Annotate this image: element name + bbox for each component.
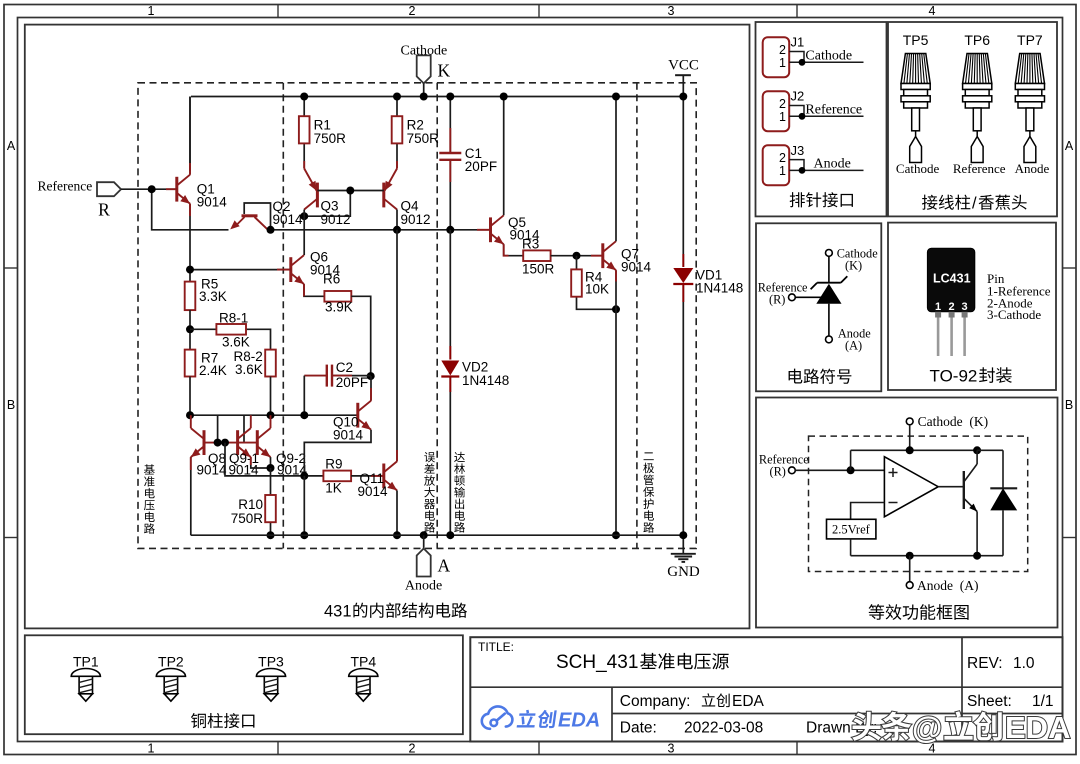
svg-text:TP7: TP7 xyxy=(1017,32,1043,48)
section label 误差放大器电路 xyxy=(424,452,435,462)
protection diode xyxy=(1002,450,1004,488)
svg-text:Reference: Reference xyxy=(38,179,93,194)
anode port xyxy=(420,531,428,539)
wire R9 to Q11 base xyxy=(351,475,384,477)
Q9-1 collector stub xyxy=(250,415,252,428)
svg-text:3.6K: 3.6K xyxy=(222,335,250,350)
section label 基准电压电路 xyxy=(144,464,155,474)
svg-text:750R: 750R xyxy=(407,131,440,146)
Q9-1 emitter to joint xyxy=(251,457,271,468)
svg-text:3: 3 xyxy=(668,742,675,756)
svg-text:K: K xyxy=(438,61,451,81)
svg-text:2022-03-08: 2022-03-08 xyxy=(684,720,763,737)
svg-text:3: 3 xyxy=(962,301,968,313)
svg-text:Company:: Company: xyxy=(620,693,691,710)
Q9-2 emitter down xyxy=(270,457,272,468)
transistor Q7 xyxy=(601,243,604,268)
2.5Vref box xyxy=(827,519,876,539)
TO-92 body xyxy=(927,248,974,312)
svg-text:1: 1 xyxy=(148,4,155,18)
watermark 头条@立创EDA xyxy=(852,712,881,741)
svg-text:(R): (R) xyxy=(770,465,786,479)
svg-text:9014: 9014 xyxy=(197,194,228,209)
C2 left leg down to mirror bus xyxy=(303,376,305,416)
connector J3 xyxy=(763,145,790,185)
mirror bus xyxy=(190,414,358,416)
svg-text:9014: 9014 xyxy=(333,428,364,443)
svg-text:R3: R3 xyxy=(522,236,539,251)
main circuit box xyxy=(25,25,750,629)
Q10 collector up to R6/C2 node xyxy=(370,376,372,401)
TO-92 package box xyxy=(888,223,1056,390)
title 电路符号 xyxy=(789,369,803,384)
svg-text:Cathode: Cathode xyxy=(401,44,448,59)
screw at 363.3 xyxy=(349,669,378,677)
title block xyxy=(470,637,1062,741)
dashed divider x=437 xyxy=(436,83,438,549)
svg-text:1K: 1K xyxy=(325,481,342,496)
svg-text:(R): (R) xyxy=(769,292,785,306)
title 排针接口 xyxy=(790,192,805,207)
svg-text:2: 2 xyxy=(779,43,786,57)
reference terminal xyxy=(789,467,796,474)
svg-text:Cathode (K): Cathode (K) xyxy=(918,414,988,429)
banana jack at 1029.9 xyxy=(1015,54,1044,84)
copper pillar box 铜柱接口 xyxy=(25,635,463,734)
wire cathode to bus xyxy=(423,83,425,96)
resistor R1 xyxy=(303,97,305,117)
LCEDA logo xyxy=(482,706,513,728)
transistor Q4 (PNP) xyxy=(382,183,385,208)
svg-text:1: 1 xyxy=(779,56,786,70)
transistor Q1 xyxy=(189,97,191,175)
svg-text:9012: 9012 xyxy=(401,212,431,227)
transistor Q3 (PNP) xyxy=(316,183,319,208)
bus-rail vertical taps xyxy=(217,415,219,442)
svg-text:750R: 750R xyxy=(231,511,264,526)
Q5 emitter to R3 xyxy=(504,244,524,255)
node: reference branch xyxy=(152,189,229,230)
svg-text:150R: 150R xyxy=(522,261,555,276)
anode rail xyxy=(191,534,684,536)
svg-text:9014: 9014 xyxy=(358,484,389,499)
svg-text:Cathode: Cathode xyxy=(896,161,940,176)
top rail xyxy=(851,449,978,451)
svg-text:Reference: Reference xyxy=(805,102,862,117)
resistor R8-1 xyxy=(190,328,216,330)
cathode terminal port xyxy=(417,55,431,83)
svg-text:2.5Vref: 2.5Vref xyxy=(832,523,871,537)
circuit symbol box 电路符号 xyxy=(756,223,881,391)
svg-text:2: 2 xyxy=(949,301,955,313)
resistor R7 xyxy=(185,350,196,377)
dashed divider x=283 xyxy=(282,83,284,549)
mirror base rail xyxy=(204,442,257,444)
svg-text:2: 2 xyxy=(409,742,416,756)
Q7 collector riser xyxy=(615,97,617,242)
Q11 emitter to rail xyxy=(396,490,398,535)
capacitor C2 xyxy=(304,375,327,377)
svg-text:R9: R9 xyxy=(325,456,342,471)
svg-text:TP4: TP4 xyxy=(350,654,376,670)
svg-text:3.3K: 3.3K xyxy=(199,289,227,304)
banana jack at 915.6 xyxy=(901,54,930,84)
svg-text:/: / xyxy=(972,195,977,213)
svg-text:2.4K: 2.4K xyxy=(199,363,227,378)
frame row ticks xyxy=(4,267,18,269)
svg-text:R6: R6 xyxy=(323,272,340,287)
svg-text:1: 1 xyxy=(779,164,786,178)
svg-text:J1: J1 xyxy=(791,35,805,50)
svg-text:1: 1 xyxy=(148,742,155,756)
svg-text:A: A xyxy=(438,556,451,576)
svg-text:9014: 9014 xyxy=(273,212,304,227)
svg-text:9014: 9014 xyxy=(197,462,228,477)
svg-text:J2: J2 xyxy=(791,89,805,104)
svg-text:431: 431 xyxy=(324,603,352,621)
svg-text:A: A xyxy=(7,139,16,153)
Q4 collector down to ref bus xyxy=(396,210,398,230)
svg-text:VCC: VCC xyxy=(668,58,699,74)
dashed block xyxy=(809,436,1028,571)
svg-text:Reference: Reference xyxy=(953,161,1006,176)
svg-text:C2: C2 xyxy=(336,360,353,375)
Q5 collector riser xyxy=(503,97,505,216)
title 铜柱接口 xyxy=(191,713,206,728)
transistor Q6 xyxy=(289,257,292,282)
svg-text:1N4148: 1N4148 xyxy=(462,373,509,388)
svg-text:20PF: 20PF xyxy=(336,375,368,390)
reference flag xyxy=(97,182,121,196)
output transistor xyxy=(938,486,964,488)
top bus wire xyxy=(191,96,683,98)
svg-text:EDA: EDA xyxy=(558,710,600,732)
TO-92 pins xyxy=(935,312,941,318)
svg-text:(A): (A) xyxy=(845,339,862,353)
svg-text:2: 2 xyxy=(779,151,786,165)
svg-text:EDA: EDA xyxy=(1005,710,1070,745)
transistor Q9-1 xyxy=(236,430,239,455)
svg-text:REV:: REV: xyxy=(967,655,1003,672)
connector J2 xyxy=(763,91,790,131)
svg-text:3.6K: 3.6K xyxy=(235,362,263,377)
svg-text:A: A xyxy=(1065,139,1074,153)
banana jack at 977.2 xyxy=(963,54,992,84)
svg-text:Anode: Anode xyxy=(405,579,442,594)
diode VD2 xyxy=(441,361,459,376)
banana jack box 接线柱/香蕉头 xyxy=(888,22,1057,216)
resistor R5 xyxy=(185,282,196,311)
logo text 立创EDA xyxy=(517,710,557,729)
svg-text:J3: J3 xyxy=(791,143,805,158)
dashed section box xyxy=(138,83,696,549)
svg-text:EDA: EDA xyxy=(732,693,765,710)
svg-text:2: 2 xyxy=(779,97,786,111)
svg-text:Date:: Date: xyxy=(620,720,657,737)
transistor Q11 xyxy=(382,464,385,489)
svg-text:Cathode: Cathode xyxy=(805,48,852,63)
svg-text:1N4148: 1N4148 xyxy=(696,281,743,296)
Q7 emitter down to rail xyxy=(615,270,617,535)
resistor R4 xyxy=(576,256,578,270)
Q8 emitter to rail xyxy=(190,457,192,535)
svg-text:TITLE:: TITLE: xyxy=(478,640,514,654)
svg-text:@: @ xyxy=(912,710,942,745)
svg-text:10K: 10K xyxy=(585,282,609,297)
svg-text:9014: 9014 xyxy=(621,260,652,275)
Q8 collector stub to bus xyxy=(190,415,192,428)
R9 feed wire from base rail xyxy=(225,443,323,476)
svg-text:SCH_431: SCH_431 xyxy=(556,652,638,673)
resistor R3 xyxy=(523,250,550,261)
Q3-Q4 base wire with loop to Q3 collector xyxy=(317,190,383,192)
capacitor C1 xyxy=(449,97,451,154)
svg-text:TO-92: TO-92 xyxy=(930,367,978,386)
section label 二极管保护电路 xyxy=(644,452,654,460)
svg-text:3-Cathode: 3-Cathode xyxy=(987,307,1041,322)
resistor R6 xyxy=(324,291,351,302)
resistor R2 xyxy=(396,97,398,117)
pin header box 排针接口 xyxy=(756,22,887,216)
wire R5 to R7 xyxy=(189,310,191,350)
section label 达林顿输出电路 xyxy=(454,452,465,462)
title 等效功能框图 xyxy=(869,604,885,620)
Q3 collector vertical down to Q6 xyxy=(303,210,305,256)
svg-text:Sheet:: Sheet: xyxy=(967,693,1012,710)
wire R9 node down to anode rail xyxy=(303,476,305,535)
screw at 85.8 xyxy=(71,668,100,676)
svg-text:TP2: TP2 xyxy=(158,654,184,670)
svg-text:750R: 750R xyxy=(314,131,347,146)
wire R3 to Q7 base xyxy=(551,255,603,257)
connector J1 xyxy=(763,37,790,77)
transistor Q8 xyxy=(203,430,206,455)
svg-text:TP6: TP6 xyxy=(964,32,990,48)
transistor Q10 xyxy=(356,403,359,428)
resistor R9 xyxy=(323,471,351,482)
svg-text:3: 3 xyxy=(668,4,675,18)
ground symbol xyxy=(682,535,684,554)
svg-text:2: 2 xyxy=(409,4,416,18)
screw at 170.9 xyxy=(156,669,185,677)
resistor R10 xyxy=(270,468,272,495)
anode terminal xyxy=(909,556,911,582)
Q6 emitter to R6 xyxy=(304,284,324,296)
frame column ticks xyxy=(277,5,279,18)
wire R6 to C2/Q10 node xyxy=(351,296,370,376)
svg-text:R10: R10 xyxy=(238,497,263,512)
resistor R8-2 xyxy=(265,350,276,377)
wire reference to Q1 base xyxy=(121,188,177,190)
svg-text:1: 1 xyxy=(935,301,941,313)
VCC / VD1 vertical wire xyxy=(682,97,684,268)
svg-text:1/1: 1/1 xyxy=(1032,693,1054,710)
cathode terminal xyxy=(906,418,913,425)
Q11 collector riser to ref bus xyxy=(396,230,398,462)
svg-text:LC431: LC431 xyxy=(933,272,971,286)
svg-text:3.9K: 3.9K xyxy=(325,300,353,315)
svg-text:GND: GND xyxy=(667,564,700,580)
svg-text:TP3: TP3 xyxy=(258,654,284,670)
svg-text:R: R xyxy=(98,200,110,220)
svg-text:Anode: Anode xyxy=(1015,161,1050,176)
svg-text:Anode (A): Anode (A) xyxy=(917,578,978,593)
svg-text:TP1: TP1 xyxy=(73,654,99,670)
minus input to 2.5Vref xyxy=(851,503,885,520)
Q6 base wire xyxy=(190,269,291,271)
bottom rail xyxy=(851,555,1003,557)
screw at 271 xyxy=(256,669,285,677)
svg-text:1: 1 xyxy=(779,110,786,124)
diode VD1 xyxy=(682,254,684,267)
op-amp xyxy=(884,457,938,517)
reference bus to Q5 base xyxy=(271,229,491,231)
svg-text:4: 4 xyxy=(929,4,936,18)
title 接线柱/香蕉头 xyxy=(922,195,937,210)
svg-text:B: B xyxy=(1065,398,1073,412)
svg-text:9012: 9012 xyxy=(321,212,351,227)
TL431 symbol xyxy=(826,250,833,257)
svg-text:TP5: TP5 xyxy=(903,32,929,48)
svg-text:20PF: 20PF xyxy=(465,159,497,174)
svg-text:Anode: Anode xyxy=(814,156,851,171)
dashed divider x=637 xyxy=(636,83,638,549)
wire C1 line to anode rail xyxy=(449,230,451,360)
VCC symbol xyxy=(675,74,691,76)
transistor Q2 (rotated) xyxy=(244,203,270,230)
svg-text:R8-1: R8-1 xyxy=(219,311,248,326)
Q10 emitter loop to R9 wire xyxy=(304,430,371,476)
svg-text:B: B xyxy=(7,398,15,412)
svg-text:1.0: 1.0 xyxy=(1013,655,1035,672)
functional block box 等效功能框图 xyxy=(756,398,1058,628)
svg-text:(K): (K) xyxy=(845,259,862,273)
transistor Q9-2 xyxy=(256,430,259,455)
transistor Q5 xyxy=(489,217,492,242)
